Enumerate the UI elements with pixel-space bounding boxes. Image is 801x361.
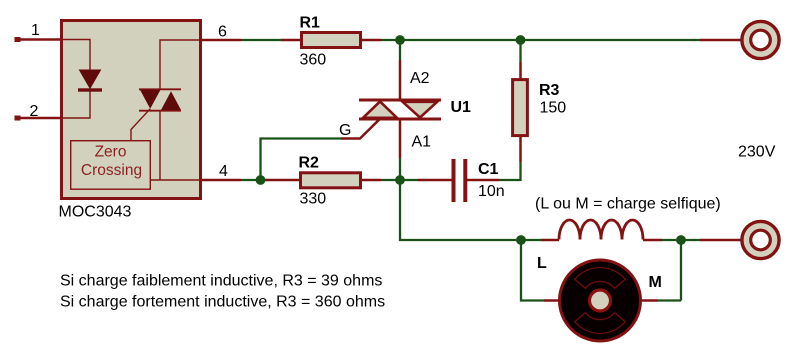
svg-text:2: 2 bbox=[30, 103, 39, 120]
svg-text:150: 150 bbox=[540, 100, 567, 117]
label 230V bbox=[738, 144, 776, 161]
wire node B to R3 bbox=[519, 44, 521, 62]
terminal J2 bbox=[700, 221, 779, 258]
internal LED wire bbox=[61, 40, 90, 119]
svg-text:R2: R2 bbox=[299, 154, 320, 171]
wire node E to L bbox=[521, 239, 541, 241]
wire motor to node F bbox=[658, 244, 681, 301]
note line 2 bbox=[60, 294, 385, 311]
value 150 bbox=[540, 100, 567, 117]
motor M bbox=[544, 260, 658, 341]
resistor R3 bbox=[513, 62, 528, 162]
wire C1 to R3 bbox=[499, 162, 521, 180]
node E junction bbox=[516, 235, 526, 245]
svg-text:M: M bbox=[649, 274, 662, 291]
label A1 bbox=[412, 134, 432, 151]
wire node D to node E bottom rail bbox=[400, 184, 521, 240]
resistor R1 bbox=[281, 33, 381, 48]
internal LED diode bbox=[78, 70, 102, 92]
triac U1 bbox=[341, 60, 441, 158]
label L bbox=[537, 255, 547, 272]
wire L to node F bbox=[662, 239, 681, 241]
node F junction bbox=[676, 235, 686, 245]
svg-text:10n: 10n bbox=[478, 183, 505, 200]
pin 6 bbox=[200, 24, 241, 41]
node C junction bbox=[256, 175, 266, 185]
svg-text:6: 6 bbox=[218, 24, 227, 41]
svg-text:R1: R1 bbox=[300, 15, 321, 32]
svg-text:360: 360 bbox=[300, 52, 327, 69]
node A junction bbox=[395, 35, 405, 45]
wire pin6 to R1 bbox=[241, 39, 281, 41]
svg-text:G: G bbox=[339, 122, 351, 139]
wire A1 stub bbox=[399, 158, 401, 180]
value 330 bbox=[300, 191, 327, 208]
svg-text:Si charge fortement inductive,: Si charge fortement inductive, R3 = 360 … bbox=[60, 294, 385, 311]
svg-text:4: 4 bbox=[219, 163, 228, 180]
svg-text:C1: C1 bbox=[478, 161, 499, 178]
internal gate wire bbox=[131, 109, 150, 140]
note charge selfique bbox=[535, 195, 721, 212]
wire pin4 to node C bbox=[241, 179, 261, 181]
svg-text:U1: U1 bbox=[451, 99, 472, 116]
pin 1 bbox=[15, 22, 62, 42]
internal triac bbox=[139, 89, 181, 110]
label A2 bbox=[410, 70, 430, 87]
pin 2 bbox=[15, 103, 62, 120]
svg-text:Si charge faiblement inductive: Si charge faiblement inductive, R3 = 39 … bbox=[60, 273, 382, 290]
wire node F to terminal J2 bbox=[681, 239, 700, 241]
label M bbox=[649, 274, 662, 291]
svg-text:230V: 230V bbox=[738, 144, 776, 161]
wire R1 to node A bbox=[381, 39, 400, 41]
node D junction bbox=[395, 175, 405, 185]
optocoupler MOC3043 body bbox=[62, 21, 201, 199]
terminal J1 bbox=[700, 21, 779, 58]
svg-text:L: L bbox=[537, 255, 547, 272]
svg-text:MOC3043: MOC3043 bbox=[59, 203, 132, 220]
wire node B to terminal J1 bbox=[521, 39, 701, 41]
label MOC3043 bbox=[59, 203, 132, 220]
svg-text:(L ou M = charge selfique): (L ou M = charge selfique) bbox=[535, 195, 721, 212]
internal triac wire bottom bbox=[151, 111, 200, 180]
label G bbox=[339, 122, 351, 139]
label R3 bbox=[539, 82, 560, 99]
capacitor C1 bbox=[400, 159, 499, 202]
svg-text:330: 330 bbox=[300, 191, 327, 208]
note line 1 bbox=[60, 273, 382, 290]
label U1 bbox=[451, 99, 472, 116]
svg-text:A1: A1 bbox=[412, 134, 432, 151]
value 10n bbox=[478, 183, 505, 200]
svg-text:Crossing: Crossing bbox=[81, 162, 142, 179]
wire node E to motor bbox=[521, 244, 544, 301]
wire gate to node C bbox=[261, 139, 342, 181]
svg-text:1: 1 bbox=[31, 22, 40, 39]
value 360 bbox=[300, 52, 327, 69]
inductor L bbox=[541, 220, 662, 240]
label R1 bbox=[300, 15, 321, 32]
zero crossing box bbox=[71, 141, 151, 190]
internal triac wire top bbox=[160, 40, 200, 89]
svg-text:Zero: Zero bbox=[95, 144, 127, 161]
svg-text:A2: A2 bbox=[410, 70, 430, 87]
node B junction bbox=[516, 35, 526, 45]
resistor R2 bbox=[265, 173, 381, 188]
wire A2 stub bbox=[399, 44, 401, 60]
label R2 bbox=[299, 154, 320, 171]
label C1 bbox=[478, 161, 499, 178]
wire R2 to node D bbox=[381, 179, 400, 181]
pin 4 bbox=[200, 163, 241, 180]
wire node A to node B bbox=[400, 39, 521, 41]
svg-text:R3: R3 bbox=[539, 82, 560, 99]
